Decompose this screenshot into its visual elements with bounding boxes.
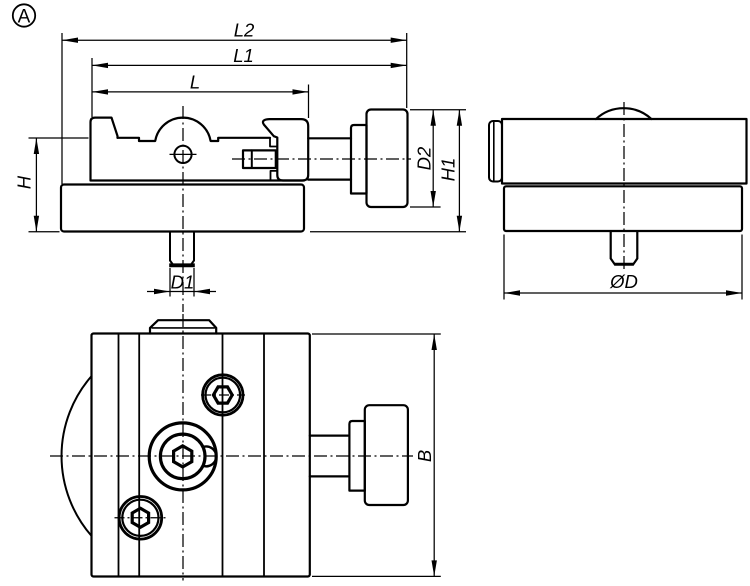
svg-text:H: H <box>14 175 35 189</box>
svg-text:L2: L2 <box>234 20 255 41</box>
svg-text:L: L <box>190 71 200 92</box>
svg-text:D2: D2 <box>414 146 435 170</box>
svg-text:H1: H1 <box>438 158 459 182</box>
svg-text:A: A <box>18 6 31 27</box>
svg-text:L1: L1 <box>233 45 254 66</box>
svg-text:B: B <box>414 450 435 462</box>
svg-text:D1: D1 <box>171 272 195 293</box>
svg-text:ØD: ØD <box>609 271 638 292</box>
